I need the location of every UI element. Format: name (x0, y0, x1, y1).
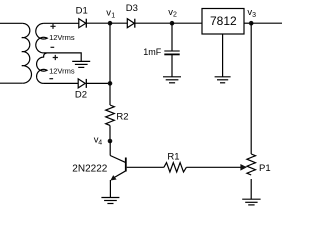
node v1 junction dot (108, 21, 113, 26)
transformer secondary upper winding (36, 23, 47, 53)
diode D3 (127, 19, 135, 28)
label D2 (75, 90, 87, 101)
node D2 junction dot (108, 81, 113, 86)
node v2 junction dot (170, 21, 175, 26)
ground (P1) (242, 199, 260, 205)
polarity - upper (51, 46, 55, 48)
wire: v1 to D3 to v2 (110, 22, 172, 24)
wire: R2 to v4 (109, 125, 111, 141)
label 1mF (143, 47, 162, 57)
svg-text:D1: D1 (76, 6, 88, 17)
capacitor C1 1mF plates (164, 51, 179, 54)
resistor R2 (106, 105, 115, 125)
wire: center tap to ground (44, 53, 82, 61)
wire: D1 to v1 (86, 22, 110, 24)
svg-text:7812: 7812 (210, 14, 237, 28)
potentiometer P1 (247, 154, 256, 175)
svg-text:P1: P1 (259, 163, 271, 174)
node v4 junction dot (108, 139, 113, 144)
svg-text:D2: D2 (75, 90, 87, 101)
wire: capacitor to ground (171, 55, 173, 77)
svg-text:1: 1 (111, 12, 115, 19)
label v2 (168, 7, 177, 19)
wire: v3 down to P1 (250, 23, 252, 154)
svg-text:4: 4 (98, 139, 102, 146)
label P1 (259, 163, 271, 174)
wire: regulator output to v3 (244, 22, 251, 24)
wire: regulator ground pin (222, 34, 224, 77)
wire: secondary top lead to D1 (44, 22, 79, 24)
svg-text:12Vrms: 12Vrms (49, 67, 75, 76)
wire: v1 down to R2 (109, 23, 111, 105)
svg-text:3: 3 (252, 12, 256, 19)
ground (regulator) (215, 77, 231, 83)
diode D1 (79, 19, 87, 28)
polarity + lower (53, 55, 58, 60)
label 12Vrms upper (49, 33, 75, 42)
svg-text:2N2222: 2N2222 (72, 163, 107, 174)
wire: base to R1 (127, 166, 164, 168)
svg-text:R2: R2 (116, 112, 128, 123)
label R1 (167, 152, 179, 163)
polarity - lower (49, 78, 53, 80)
wire: secondary bottom lead to D2 (44, 82, 79, 84)
P1 wiper arrow (240, 164, 247, 171)
svg-text:D3: D3 (126, 3, 138, 14)
transformer secondary lower winding (37, 53, 47, 83)
ground (capacitor) (163, 77, 181, 83)
ground (transistor emitter) (101, 198, 119, 204)
wire: v2 to regulator (172, 22, 202, 24)
label v1 (106, 7, 115, 19)
transistor Q1 2N2222 (110, 141, 126, 197)
label R2 (116, 112, 128, 123)
resistor R1 (164, 163, 186, 172)
svg-text:2: 2 (173, 12, 177, 19)
wire: R1 to P1 wiper (186, 166, 240, 168)
label 2N2222 (72, 163, 107, 174)
wire: primary bottom lead (0, 82, 23, 84)
label 12Vrms lower (49, 67, 75, 76)
transformer primary winding (22, 23, 32, 83)
wire: v3 to right end (251, 22, 282, 24)
wire: D2 to v1 vertical (86, 82, 110, 84)
wire: P1 to ground (250, 179, 252, 199)
label D1 (76, 6, 88, 17)
svg-text:1mF: 1mF (143, 47, 162, 57)
node v3 junction dot (249, 21, 254, 26)
ground (center tap) (72, 61, 90, 67)
wire: primary top lead (0, 22, 23, 24)
svg-text:12Vrms: 12Vrms (49, 33, 75, 42)
svg-text:R1: R1 (167, 152, 179, 163)
label D3 (126, 3, 138, 14)
polarity + upper (50, 24, 55, 29)
diode D2 (78, 79, 86, 88)
label v3 (247, 7, 256, 19)
label v4 (94, 135, 103, 147)
voltage regulator U1 7812 box (202, 9, 244, 35)
wire: v2 down to capacitor (171, 23, 173, 51)
